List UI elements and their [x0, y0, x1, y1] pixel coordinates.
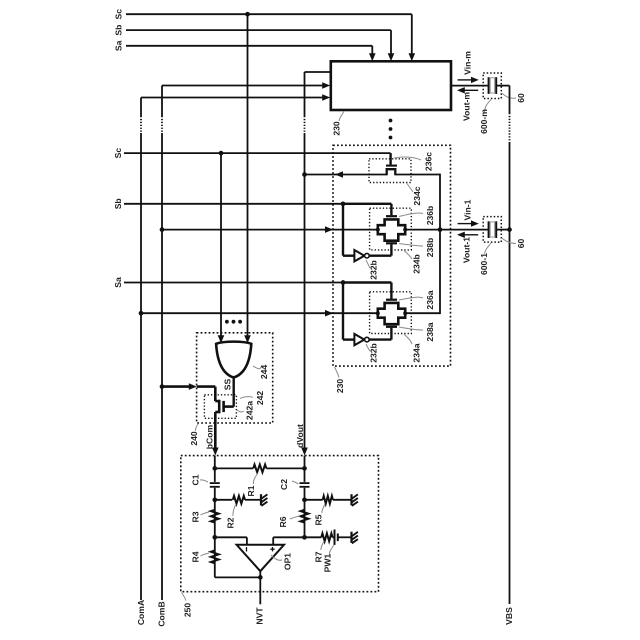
- svg-text:234c: 234c: [412, 186, 422, 205]
- svg-text:238b: 238b: [425, 238, 435, 258]
- svg-text:238a: 238a: [425, 322, 435, 341]
- svg-text:Sb: Sb: [113, 198, 123, 209]
- svg-text:232b: 232b: [369, 343, 379, 363]
- svg-text:234b: 234b: [412, 254, 422, 274]
- svg-text:234a: 234a: [411, 343, 421, 362]
- svg-text:R1: R1: [246, 485, 256, 496]
- svg-text:R4: R4: [191, 551, 201, 562]
- svg-text:Sc: Sc: [113, 148, 123, 159]
- svg-text:PW1: PW1: [323, 553, 333, 572]
- svg-text:Sa: Sa: [113, 277, 123, 288]
- svg-text:Vin-m: Vin-m: [463, 51, 473, 75]
- svg-text:R5: R5: [314, 514, 324, 525]
- svg-text:242: 242: [255, 391, 265, 406]
- svg-text:230: 230: [332, 121, 342, 136]
- svg-text:236c: 236c: [424, 152, 434, 171]
- svg-text:Vout-1: Vout-1: [462, 237, 472, 263]
- svg-text:60: 60: [516, 93, 526, 103]
- svg-text:600-1: 600-1: [479, 253, 489, 275]
- svg-text:VBS: VBS: [504, 607, 514, 625]
- svg-text:60: 60: [516, 239, 526, 249]
- svg-text:Vin-1: Vin-1: [463, 199, 473, 220]
- svg-text:242a: 242a: [245, 401, 255, 420]
- svg-text:OP1: OP1: [282, 553, 292, 570]
- svg-text:Sb: Sb: [114, 25, 124, 36]
- svg-text:bCom: bCom: [205, 424, 215, 449]
- svg-text:NVT: NVT: [255, 607, 265, 625]
- svg-text:SS: SS: [222, 379, 232, 391]
- svg-text:ComA: ComA: [136, 600, 146, 625]
- svg-text:Vout-m: Vout-m: [462, 92, 472, 121]
- svg-text:dVout: dVout: [295, 424, 305, 448]
- svg-text:236b: 236b: [425, 206, 435, 226]
- svg-text:C2: C2: [279, 479, 289, 490]
- svg-text:236a: 236a: [425, 290, 435, 309]
- svg-text:C1: C1: [191, 474, 201, 485]
- svg-text:R2: R2: [226, 517, 236, 528]
- svg-text:600-m: 600-m: [479, 109, 489, 134]
- svg-text:244: 244: [259, 365, 269, 380]
- svg-text:Sc: Sc: [114, 9, 124, 20]
- svg-text:Sa: Sa: [114, 40, 124, 51]
- svg-text:ComB: ComB: [157, 601, 167, 626]
- svg-text:R6: R6: [278, 516, 288, 527]
- svg-text:232b: 232b: [369, 260, 379, 280]
- svg-text:230: 230: [335, 379, 345, 394]
- svg-text:240: 240: [189, 431, 199, 446]
- svg-text:250: 250: [183, 603, 193, 618]
- svg-text:R3: R3: [191, 511, 201, 522]
